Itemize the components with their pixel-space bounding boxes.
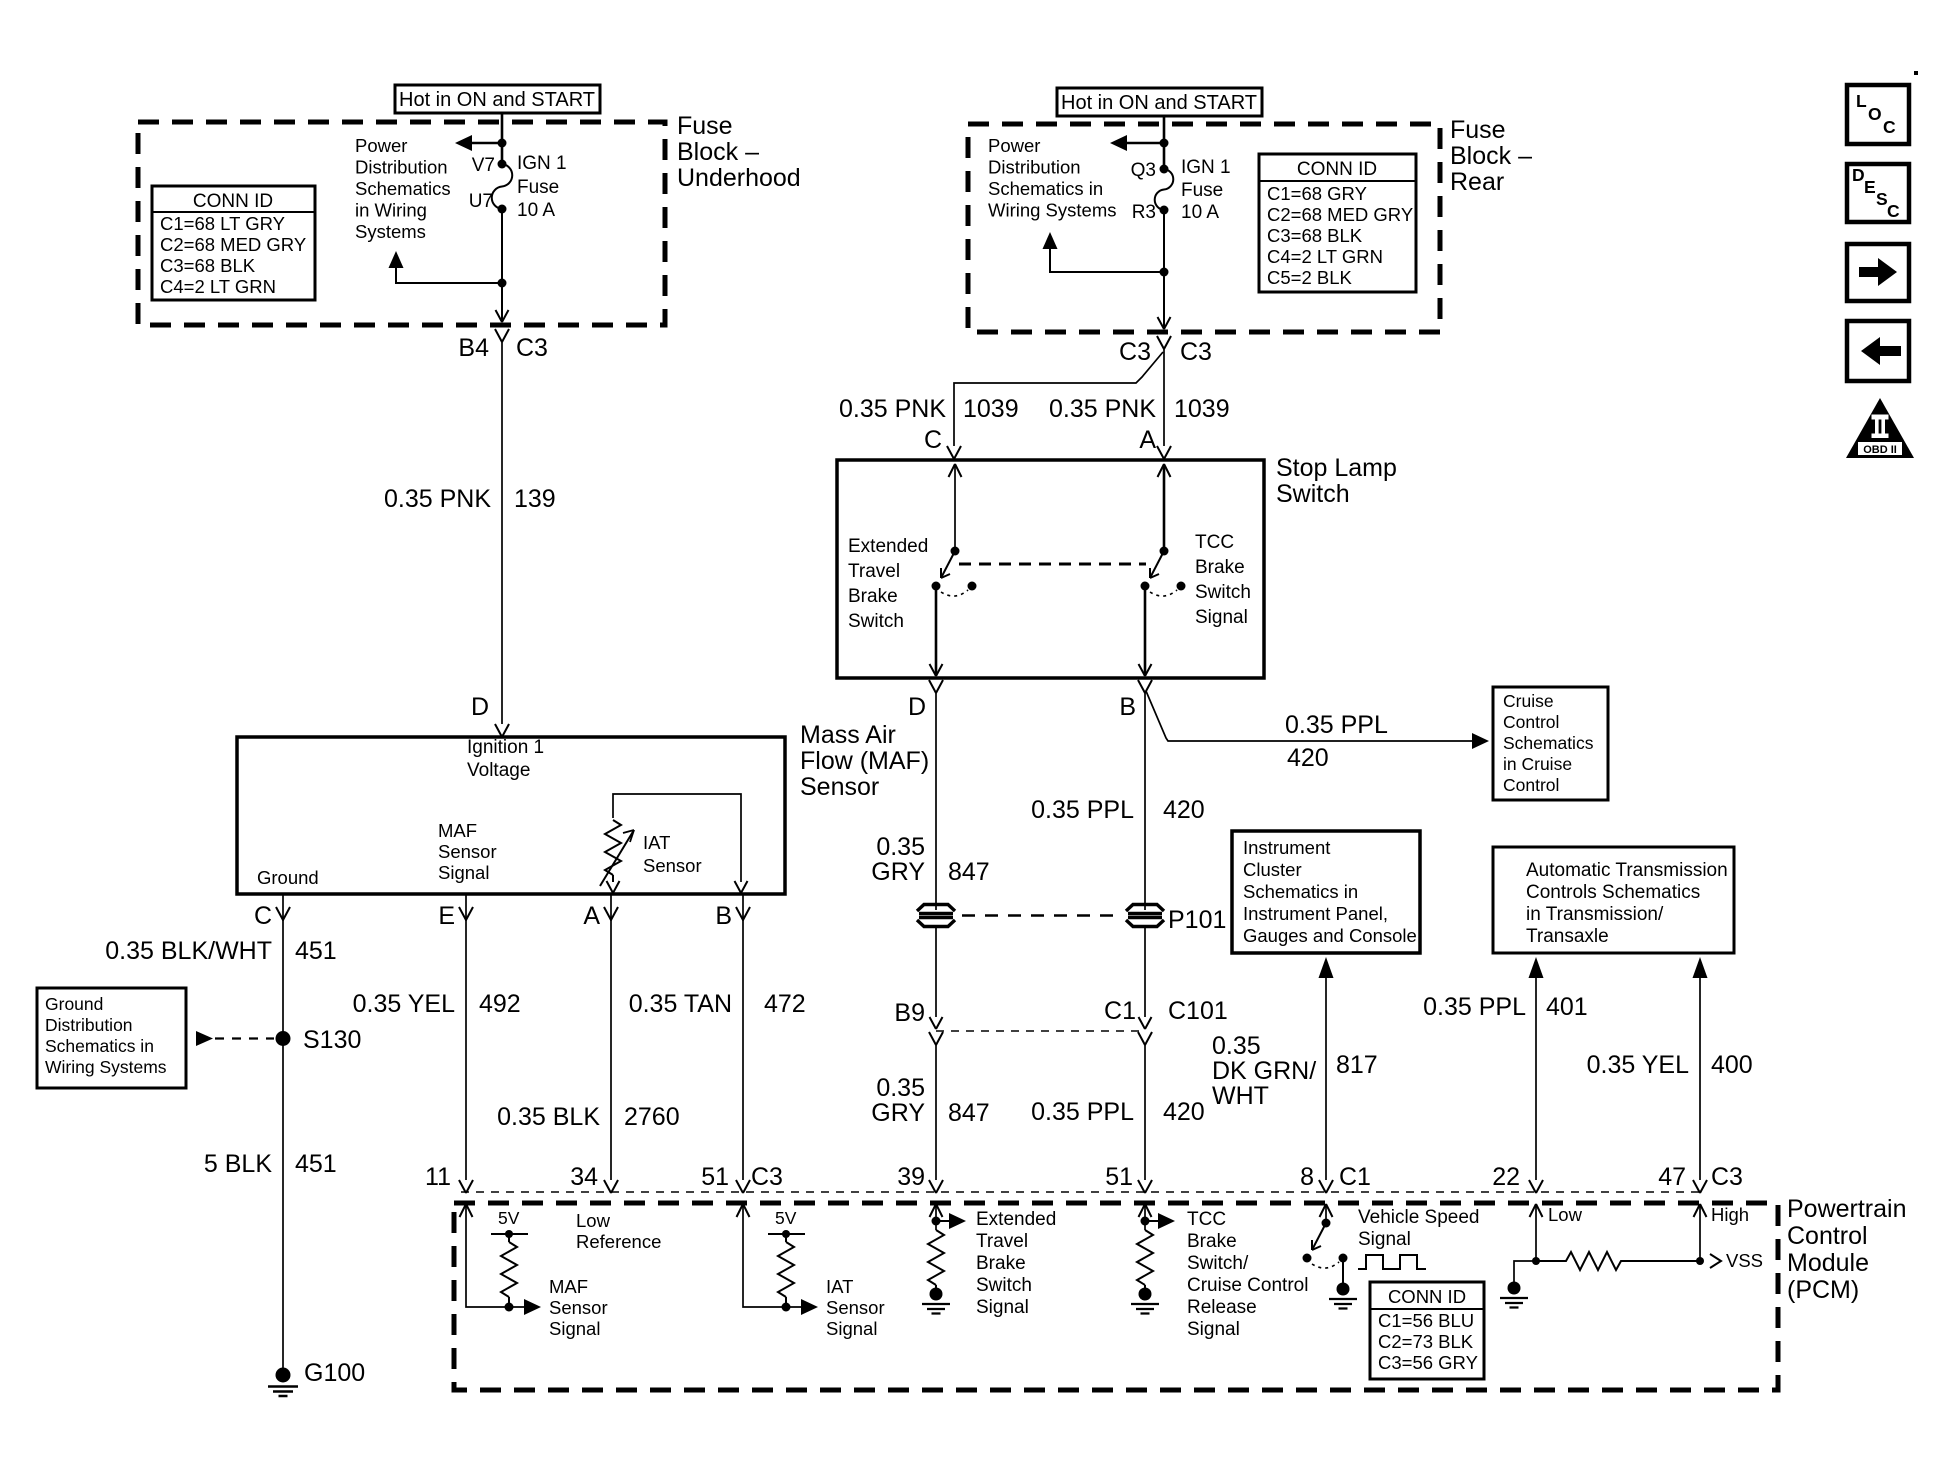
svg-text:C: C [254, 902, 272, 930]
pass-through connector P101 at B wire [1126, 905, 1164, 927]
svg-text:G100: G100 [304, 1359, 365, 1387]
connector fork at MAF pin D [495, 724, 509, 737]
svg-text:Control: Control [1503, 775, 1559, 795]
svg-text:Instrument: Instrument [1243, 837, 1330, 858]
svg-text:Brake: Brake [976, 1253, 1026, 1274]
svg-text:Flow (MAF): Flow (MAF) [800, 747, 929, 775]
pass-through connector at D wire [917, 905, 955, 927]
junction node IAT signal [782, 1303, 791, 1312]
svg-text:451: 451 [295, 1150, 337, 1178]
svg-text:492: 492 [479, 990, 521, 1018]
stop lamp switch box [837, 460, 1264, 678]
svg-text:IGN 1: IGN 1 [1181, 157, 1231, 178]
svg-text:51: 51 [701, 1163, 729, 1191]
label Extended Travel Brake Switch [848, 536, 928, 632]
connector fork at PCM pin 8 [1319, 1180, 1333, 1193]
svg-text:Signal: Signal [438, 862, 489, 883]
svg-text:2760: 2760 [624, 1103, 680, 1131]
svg-text:Sensor: Sensor [826, 1297, 885, 1318]
svg-text:Sensor: Sensor [438, 841, 497, 862]
svg-text:B: B [1119, 693, 1136, 721]
svg-text:C1: C1 [1104, 997, 1136, 1025]
svg-text:WHT: WHT [1212, 1082, 1269, 1110]
svg-text:in Cruise: in Cruise [1503, 754, 1572, 774]
svg-text:451: 451 [295, 937, 337, 965]
wire stop lamp pin C internal with up arrow [949, 464, 962, 551]
dashed line of connector C101 [936, 1030, 1145, 1032]
svg-text:Fuse: Fuse [677, 112, 733, 140]
connector fork at stop lamp pin B [1138, 680, 1152, 693]
svg-text:Block –: Block – [677, 138, 759, 166]
svg-text:Transaxle: Transaxle [1526, 926, 1609, 947]
value label 0.35 BLK 2760 [497, 1103, 679, 1131]
svg-text:0.35: 0.35 [876, 833, 925, 861]
svg-text:Gauges and Console: Gauges and Console [1243, 925, 1417, 946]
svg-text:Power: Power [988, 135, 1040, 156]
svg-text:0.35: 0.35 [1212, 1032, 1261, 1060]
connector fork B4/C3 [495, 329, 509, 342]
connector fork at stop lamp pin A [1157, 446, 1171, 459]
svg-text:Power: Power [355, 135, 407, 156]
wire branch stop lamp B to cruise control [1146, 691, 1489, 749]
svg-text:C3=68 BLK: C3=68 BLK [160, 255, 256, 276]
icon DESC [1847, 164, 1909, 222]
svg-text:B: B [715, 902, 732, 930]
note Instrument Cluster Schematics [1232, 831, 1420, 953]
label IAT Sensor [643, 832, 702, 876]
svg-text:Powertrain: Powertrain [1787, 1195, 1907, 1223]
fuse block rear dashed box [968, 124, 1440, 332]
svg-text:Switch: Switch [976, 1275, 1032, 1296]
svg-text:Schematics in: Schematics in [988, 178, 1103, 199]
connector forks at PCM pins 39 51 [929, 1180, 1152, 1193]
label Extended Travel Brake Switch Signal [976, 1209, 1056, 1318]
value label 0.35 BLK/WHT 451 [105, 937, 336, 965]
svg-text:0.35 PPL: 0.35 PPL [1031, 1098, 1134, 1126]
svg-text:8: 8 [1300, 1163, 1314, 1191]
svg-text:0.35 YEL: 0.35 YEL [1587, 1051, 1690, 1079]
svg-text:C3=56 GRY: C3=56 GRY [1378, 1352, 1478, 1373]
svg-text:0.35: 0.35 [876, 1074, 925, 1102]
svg-text:817: 817 [1336, 1051, 1378, 1079]
label Stop Lamp Switch [1276, 454, 1397, 508]
wire pin 22 down to VSS node [1535, 1206, 1537, 1261]
wire branch diagonal to stop lamp pin C [954, 352, 1163, 446]
svg-text:Control: Control [1503, 712, 1559, 732]
connector fork MAF pin C [276, 894, 290, 921]
svg-text:Extended: Extended [848, 536, 928, 557]
junction node ETBS signal [932, 1217, 941, 1226]
svg-text:10 A: 10 A [517, 200, 555, 221]
svg-text:Sensor: Sensor [800, 773, 879, 801]
value label 0.35 GRY 847 (lower) [871, 1074, 989, 1127]
svg-text:Ground: Ground [257, 867, 319, 888]
value label 0.35 YEL 492 [353, 990, 521, 1018]
svg-text:CONN ID: CONN ID [193, 191, 273, 212]
svg-text:IGN 1: IGN 1 [517, 153, 567, 174]
wire switch SW1 output down with arrow [930, 586, 943, 676]
svg-text:IAT: IAT [643, 832, 670, 853]
switch SW3 vehicle speed signal [1303, 1206, 1348, 1283]
svg-text:D: D [471, 693, 489, 721]
label IAT Sensor Signal (PCM) [826, 1276, 885, 1339]
svg-text:Signal: Signal [976, 1297, 1029, 1318]
PCM pin 11 entry arrow [460, 1204, 473, 1217]
svg-text:L: L [1856, 91, 1867, 111]
svg-text:D: D [908, 693, 926, 721]
svg-text:OBD II: OBD II [1863, 444, 1897, 456]
junction node VSS high [1696, 1257, 1704, 1265]
label Powertrain Control Module (PCM) [1787, 1195, 1907, 1304]
wire fuse output down [501, 209, 503, 322]
resistor R-ETBS pulldown [928, 1230, 944, 1288]
node Hot in ON and START (left) [395, 85, 600, 113]
wire pin 51 to divider node [1144, 1206, 1146, 1230]
svg-text:420: 420 [1287, 744, 1329, 772]
svg-text:C4=2 LT GRN: C4=2 LT GRN [1267, 246, 1383, 267]
svg-text:C1: C1 [1339, 1163, 1371, 1191]
PCM pin 47 entry arrow [1694, 1204, 1707, 1217]
wire branch to power distribution (up arrow) [389, 251, 503, 283]
svg-text:Brake: Brake [1195, 557, 1245, 578]
svg-text:0.35 BLK/WHT: 0.35 BLK/WHT [105, 937, 272, 965]
svg-text:400: 400 [1711, 1051, 1753, 1079]
svg-text:Automatic Transmission: Automatic Transmission [1526, 860, 1728, 881]
square wave symbol [1358, 1255, 1426, 1269]
svg-text:847: 847 [948, 858, 990, 886]
wire 0.35 DK GRN/WHT 817 instrument cluster to PCM 8 [1319, 957, 1334, 1180]
wire pin 39 to divider node [935, 1206, 937, 1230]
arrow IAT sensor signal [801, 1299, 818, 1315]
ground (vehicle speed switch) [1329, 1283, 1357, 1309]
svg-text:C101: C101 [1168, 997, 1228, 1025]
svg-text:D: D [1852, 165, 1865, 185]
svg-text:0.35 BLK: 0.35 BLK [497, 1103, 600, 1131]
value label 0.35 PNK 1039 (right branch) [1049, 395, 1230, 423]
svg-text:Signal: Signal [826, 1318, 877, 1339]
mechanical link dashed between switches [959, 563, 1146, 566]
ground G100 [268, 1368, 298, 1397]
svg-text:Low: Low [1548, 1204, 1583, 1225]
icon forward arrow [1847, 244, 1909, 301]
5V supply rail (IAT) [768, 1208, 805, 1238]
label MAF Sensor Signal [438, 820, 497, 883]
svg-text:Schematics: Schematics [1503, 733, 1594, 753]
svg-text:Controls Schematics: Controls Schematics [1526, 882, 1700, 903]
svg-text:Extended: Extended [976, 1209, 1056, 1230]
node Hot in ON and START (right) [1057, 88, 1262, 116]
svg-text:Q3: Q3 [1131, 160, 1156, 181]
label Low Reference [576, 1210, 661, 1252]
connector exit arrow at rear fuse block edge [1158, 317, 1171, 329]
wire 0.35 BLK 2760 pin A to PCM 34 [610, 920, 612, 1180]
svg-text:Fuse: Fuse [1450, 116, 1506, 144]
wire 0.35 PPL 420 to PCM 51 [1144, 1045, 1146, 1180]
svg-text:Travel: Travel [976, 1231, 1028, 1252]
svg-text:Cluster: Cluster [1243, 859, 1302, 880]
svg-text:IAT: IAT [826, 1276, 853, 1297]
svg-text:O: O [1868, 104, 1882, 124]
label Ignition 1 Voltage [467, 737, 544, 781]
svg-text:472: 472 [764, 990, 806, 1018]
wire branch to power distribution with up arrow (rear) [1043, 232, 1165, 272]
connector forks at PCM pins 11 34 51C3 [459, 1180, 750, 1193]
svg-text:CONN ID: CONN ID [1297, 159, 1377, 180]
value label 0.35 PNK 139 [384, 485, 556, 513]
svg-text:Signal: Signal [1358, 1229, 1411, 1250]
label TCC Brake Switch Signal [1195, 532, 1251, 628]
wire 0.35 YEL 400 to PCM 47 [1693, 957, 1708, 1180]
value label 0.35 PPL 420 (cruise branch) [1285, 711, 1388, 772]
note Automatic Transmission Controls Schematics [1493, 847, 1734, 953]
fuse block underhood dashed box [138, 122, 665, 325]
stray mark [1914, 71, 1918, 75]
label MAF Sensor Signal (PCM) [549, 1276, 608, 1339]
svg-text:22: 22 [1492, 1163, 1520, 1191]
in-line connector C101 at GRY wire (pin B9) [929, 1017, 943, 1045]
note Cruise Control Schematics in Cruise Control [1493, 687, 1608, 800]
label Fuse Block Underhood [677, 112, 801, 192]
junction node below rear fuse [1160, 268, 1169, 277]
svg-text:S130: S130 [303, 1026, 361, 1054]
svg-text:Fuse: Fuse [1181, 180, 1223, 201]
wire pin 47 down to VSS node [1699, 1206, 1701, 1261]
value label IGN 1 Fuse 10 A [517, 153, 567, 221]
svg-text:0.35 PNK: 0.35 PNK [1049, 395, 1156, 423]
svg-text:Signal: Signal [1187, 1319, 1240, 1340]
wire dashed link to splice with arrow [196, 1031, 274, 1046]
svg-text:C3: C3 [751, 1163, 783, 1191]
value label 0.35 YEL 400 [1587, 1051, 1753, 1079]
value label IGN 1 Fuse 10 A (rear) [1181, 157, 1231, 223]
connector exit arrow at fuse block edge [496, 310, 509, 322]
wire 0.35 PNK 139 [501, 342, 503, 724]
wire B continues to connector C101 [1144, 926, 1146, 1017]
svg-text:C3: C3 [1119, 338, 1151, 366]
label Vehicle Speed Signal [1358, 1207, 1480, 1250]
svg-text:51: 51 [1105, 1163, 1133, 1191]
svg-text:MAF: MAF [438, 820, 477, 841]
svg-text:Sensor: Sensor [643, 855, 702, 876]
svg-text:V7: V7 [472, 155, 495, 176]
svg-text:1039: 1039 [963, 395, 1019, 423]
fuse IGN1 10A (underhood) pins V7 U7 [492, 160, 512, 214]
junction node at rear fuse top [1160, 139, 1169, 148]
svg-text:C3: C3 [1711, 1163, 1743, 1191]
svg-text:420: 420 [1163, 796, 1205, 824]
PCM dashed box [454, 1203, 1778, 1390]
wire 0.35 BLK/WHT 451 from MAF pin C [282, 920, 284, 1375]
svg-text:Schematics in: Schematics in [45, 1036, 154, 1056]
svg-text:C1=68 GRY: C1=68 GRY [1267, 183, 1367, 204]
connector fork at stop lamp pin C [947, 446, 961, 459]
wire pin 51 C3 to IAT signal node [743, 1206, 802, 1307]
connector fork C3/C3 [1157, 336, 1171, 349]
PCM pin 51 entry arrow [1139, 1204, 1152, 1217]
arrow VSS output [1710, 1254, 1721, 1268]
svg-text:34: 34 [570, 1163, 598, 1191]
note Power Distribution Schematics in Wiring Systems (right) [988, 135, 1117, 221]
svg-text:Underhood: Underhood [677, 164, 801, 192]
note Power Distribution Schematics in Wiring Systems (left) [355, 135, 451, 242]
connector fork MAF pin E [459, 894, 473, 921]
wire 0.35 GRY 847 to PCM 39 [935, 1045, 937, 1180]
PCM pin 51 C3 entry arrow [737, 1204, 750, 1217]
PCM pin 8 entry arrow [1320, 1204, 1333, 1217]
junction node VSS low [1532, 1257, 1540, 1265]
junction node TCC signal [1141, 1217, 1150, 1226]
svg-text:C2=68 MED GRY: C2=68 MED GRY [1267, 204, 1413, 225]
svg-text:E: E [1864, 177, 1876, 197]
svg-text:Systems: Systems [355, 221, 426, 242]
junction node below fuse [498, 279, 507, 288]
splice S130 [276, 1031, 291, 1046]
in-line connector C101 at PPL wire (pin C1) [1138, 1017, 1152, 1045]
svg-text:Release: Release [1187, 1297, 1257, 1318]
svg-text:MAF: MAF [549, 1276, 588, 1297]
value label 0.35 PNK 1039 (left branch) [839, 395, 1019, 423]
connector fork MAF pin B [736, 894, 750, 921]
svg-text:420: 420 [1163, 1098, 1205, 1126]
arrow TCC brake switch signal [1145, 1213, 1175, 1229]
wire from hot feed into rear fuse block [1163, 116, 1166, 170]
wire 0.35 YEL 492 pin E to PCM 11 [465, 920, 467, 1180]
ground (pin 51 divider) [1131, 1288, 1159, 1314]
svg-text:0.35 PPL: 0.35 PPL [1423, 993, 1526, 1021]
svg-text:Sensor: Sensor [549, 1297, 608, 1318]
wire rear fuse output down [1163, 210, 1165, 329]
switch SW2 TCC brake switch [1141, 547, 1186, 597]
svg-text:Rear: Rear [1450, 168, 1504, 196]
connector C dashed line across PCM top [461, 1191, 1705, 1193]
svg-text:C1=56 BLU: C1=56 BLU [1378, 1310, 1474, 1331]
svg-text:Hot in ON and START: Hot in ON and START [1061, 92, 1257, 114]
svg-text:B4: B4 [458, 334, 489, 362]
MAF sensor box [237, 737, 785, 894]
svg-text:Travel: Travel [848, 561, 900, 582]
ground (pin 39 divider) [922, 1288, 950, 1314]
svg-text:CONN ID: CONN ID [1388, 1286, 1466, 1307]
PCM pin 39 entry arrow [930, 1204, 943, 1217]
svg-text:E: E [438, 902, 455, 930]
CONN ID table (underhood) [152, 186, 315, 300]
wire arrow to power distribution [455, 135, 502, 151]
svg-text:C: C [1887, 201, 1900, 221]
svg-text:Fuse: Fuse [517, 177, 559, 198]
wire stop lamp pin A internal with up arrow [1158, 464, 1171, 551]
svg-text:A: A [583, 902, 600, 930]
svg-text:A: A [1139, 426, 1156, 454]
icon OBD II triangle [1846, 398, 1914, 458]
svg-text:Stop Lamp: Stop Lamp [1276, 454, 1397, 482]
svg-text:Voltage: Voltage [467, 760, 530, 781]
svg-text:Signal: Signal [549, 1318, 600, 1339]
svg-text:0.35 YEL: 0.35 YEL [353, 990, 456, 1018]
svg-text:R3: R3 [1132, 202, 1156, 223]
value label 5 BLK 451 [204, 1150, 337, 1178]
label Fuse Block Rear [1450, 116, 1532, 196]
connector forks at PCM pins 22 47 [1529, 1180, 1707, 1193]
svg-text:39: 39 [897, 1163, 925, 1191]
wire to ground branch [1514, 1261, 1536, 1282]
svg-text:401: 401 [1546, 993, 1588, 1021]
value label 0.35 DK GRN/WHT [1212, 1032, 1316, 1110]
wire from hot feed into underhood fuse block [501, 113, 504, 165]
arrow MAF sensor signal [524, 1299, 541, 1315]
IAT sensor bracket wiring [613, 794, 741, 882]
svg-text:0.35 TAN: 0.35 TAN [629, 990, 732, 1018]
value label 0.35 PPL 420 (lower) [1031, 1098, 1205, 1126]
svg-text:Control: Control [1787, 1222, 1868, 1250]
label Mass Air Flow (MAF) Sensor [800, 721, 929, 801]
svg-text:(PCM): (PCM) [1787, 1276, 1859, 1304]
svg-text:U7: U7 [469, 191, 493, 212]
svg-text:Switch/: Switch/ [1187, 1253, 1249, 1274]
wire 0.35 TAN 472 pin B to PCM 51 C3 [742, 920, 744, 1180]
svg-text:Mass Air: Mass Air [800, 721, 896, 749]
wire 0.35 PPL 401 to PCM 22 [1529, 957, 1544, 1180]
svg-text:S: S [1876, 189, 1888, 209]
dashed link between P101 halves [962, 914, 1118, 917]
value label 0.35 PPL 420 (upper) [1031, 796, 1205, 824]
wire pin 11 to MAF signal node [466, 1206, 525, 1307]
svg-text:Ground: Ground [45, 994, 103, 1014]
svg-text:Low: Low [576, 1210, 611, 1231]
svg-text:Distribution: Distribution [988, 157, 1081, 178]
svg-text:Ignition 1: Ignition 1 [467, 737, 544, 758]
svg-text:Signal: Signal [1195, 607, 1248, 628]
svg-text:C5=2 BLK: C5=2 BLK [1267, 267, 1353, 288]
svg-text:P101: P101 [1168, 906, 1226, 934]
svg-text:Switch: Switch [848, 611, 904, 632]
svg-text:TCC: TCC [1187, 1209, 1226, 1230]
connector fork at stop lamp pin D [929, 680, 943, 693]
svg-text:in Wiring: in Wiring [355, 200, 427, 221]
svg-text:Block –: Block – [1450, 142, 1532, 170]
IAT thermistor RT1 [600, 820, 634, 886]
junction node MAF signal [505, 1303, 514, 1312]
svg-text:C3: C3 [516, 334, 548, 362]
arrow extended travel brake switch signal [936, 1213, 966, 1229]
resistor R-MAF pullup [501, 1234, 517, 1307]
svg-text:Brake: Brake [1187, 1231, 1237, 1252]
svg-text:5V: 5V [775, 1208, 797, 1228]
IAT leg arrows at box bottom [607, 881, 748, 893]
svg-text:Vehicle Speed: Vehicle Speed [1358, 1207, 1480, 1228]
svg-text:High: High [1711, 1204, 1749, 1225]
svg-text:C3=68 BLK: C3=68 BLK [1267, 225, 1363, 246]
wire arrow to power distribution (right) [1110, 135, 1164, 151]
CONN ID table (PCM) [1370, 1282, 1484, 1379]
resistor R-IAT pullup [778, 1234, 794, 1307]
svg-text:Distribution: Distribution [355, 157, 448, 178]
svg-text:GRY: GRY [871, 1099, 925, 1127]
ground (VSS low) [1500, 1282, 1528, 1308]
wire D continues to connector C101 [935, 926, 937, 1017]
svg-text:Reference: Reference [576, 1231, 661, 1252]
svg-text:C2=68 MED GRY: C2=68 MED GRY [160, 234, 306, 255]
svg-text:Hot in ON and START: Hot in ON and START [399, 89, 595, 111]
note Ground Distribution Schematics in Wiring Systems [37, 988, 186, 1088]
svg-text:47: 47 [1658, 1163, 1686, 1191]
5V supply rail (MAF) [491, 1208, 528, 1238]
svg-text:Switch: Switch [1276, 480, 1350, 508]
svg-text:5 BLK: 5 BLK [204, 1150, 272, 1178]
resistor R-TCC pulldown [1137, 1230, 1153, 1288]
PCM pin 22 entry arrow [1530, 1204, 1543, 1217]
svg-text:C: C [924, 426, 942, 454]
CONN ID table (rear) [1259, 154, 1416, 292]
